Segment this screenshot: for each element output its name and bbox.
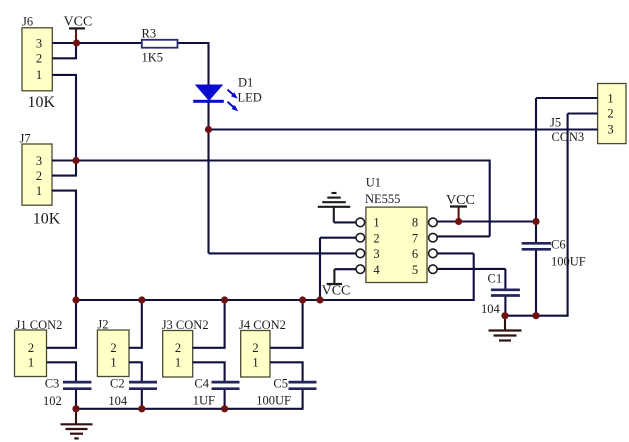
svg-text:1: 1 bbox=[110, 356, 116, 370]
svg-text:2: 2 bbox=[36, 169, 42, 183]
svg-text:1: 1 bbox=[36, 68, 42, 82]
svg-text:U1: U1 bbox=[366, 176, 381, 190]
svg-text:6: 6 bbox=[412, 247, 418, 261]
svg-text:J3 CON2: J3 CON2 bbox=[162, 318, 209, 332]
svg-text:102: 102 bbox=[43, 394, 62, 408]
svg-text:1: 1 bbox=[36, 184, 42, 198]
svg-text:C6: C6 bbox=[551, 238, 566, 252]
svg-text:CON3: CON3 bbox=[552, 130, 585, 144]
svg-text:3: 3 bbox=[373, 247, 379, 261]
svg-text:J2: J2 bbox=[97, 318, 108, 332]
svg-text:100UF: 100UF bbox=[551, 255, 586, 269]
svg-text:1: 1 bbox=[607, 92, 613, 106]
svg-text:1: 1 bbox=[373, 216, 379, 230]
svg-text:J6: J6 bbox=[22, 15, 33, 29]
svg-text:1: 1 bbox=[252, 356, 258, 370]
svg-text:C2: C2 bbox=[110, 377, 125, 391]
svg-text:D1: D1 bbox=[238, 76, 253, 90]
svg-text:VCC: VCC bbox=[64, 15, 93, 30]
svg-text:C1: C1 bbox=[488, 272, 503, 286]
svg-text:1K5: 1K5 bbox=[142, 51, 164, 65]
svg-text:2: 2 bbox=[36, 52, 42, 66]
svg-text:2: 2 bbox=[607, 107, 613, 121]
svg-text:4: 4 bbox=[373, 263, 380, 277]
svg-text:R3: R3 bbox=[142, 27, 157, 41]
svg-text:3: 3 bbox=[607, 123, 613, 137]
svg-text:3: 3 bbox=[36, 154, 42, 168]
svg-text:2: 2 bbox=[28, 341, 34, 355]
svg-text:3: 3 bbox=[36, 36, 42, 50]
svg-text:2: 2 bbox=[110, 341, 116, 355]
svg-text:104: 104 bbox=[108, 394, 128, 408]
svg-text:LED: LED bbox=[238, 91, 262, 105]
svg-text:2: 2 bbox=[373, 231, 379, 245]
svg-text:J1 CON2: J1 CON2 bbox=[16, 318, 63, 332]
svg-text:1: 1 bbox=[28, 356, 34, 370]
svg-text:10K: 10K bbox=[33, 211, 61, 228]
svg-text:8: 8 bbox=[412, 216, 418, 230]
svg-text:J5: J5 bbox=[550, 116, 561, 130]
svg-text:100UF: 100UF bbox=[256, 394, 291, 408]
svg-text:C4: C4 bbox=[194, 377, 209, 391]
svg-text:1: 1 bbox=[175, 356, 181, 370]
svg-text:1UF: 1UF bbox=[193, 394, 215, 408]
svg-text:10K: 10K bbox=[28, 94, 56, 111]
svg-text:7: 7 bbox=[412, 231, 418, 245]
svg-text:104: 104 bbox=[481, 302, 501, 316]
svg-text:VCC: VCC bbox=[322, 284, 351, 299]
svg-text:J7: J7 bbox=[20, 132, 31, 146]
svg-text:VCC: VCC bbox=[446, 193, 475, 208]
svg-text:2: 2 bbox=[252, 341, 258, 355]
svg-text:J4 CON2: J4 CON2 bbox=[239, 318, 286, 332]
svg-text:C5: C5 bbox=[273, 377, 288, 391]
svg-text:C3: C3 bbox=[45, 377, 60, 391]
svg-text:NE555: NE555 bbox=[365, 192, 400, 206]
svg-text:2: 2 bbox=[175, 341, 181, 355]
svg-text:5: 5 bbox=[412, 263, 418, 277]
